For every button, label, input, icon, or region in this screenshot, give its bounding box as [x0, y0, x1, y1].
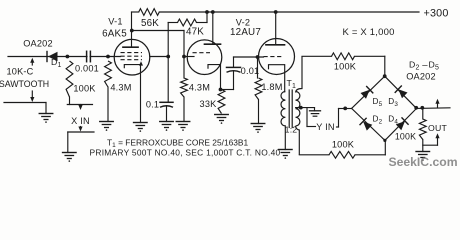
node junction dot bridge left [343, 107, 347, 111]
diode D5 bridge upper-left [361, 87, 373, 99]
node junction dot 100K tap [66, 55, 70, 59]
ground 0.1 cap [160, 122, 174, 131]
ground 33K [215, 115, 229, 124]
label 0.001 [75, 64, 99, 74]
resistor 100K input [66, 61, 73, 97]
tube V-2b cathode hook [269, 65, 285, 92]
label +300 [423, 8, 448, 20]
wire 100K to bridge top vertex [355, 56, 385, 76]
svg-text:100K: 100K [334, 62, 357, 72]
ground T1 center tap [310, 108, 321, 117]
wire bridge side upper-right [385, 76, 417, 108]
diode D4 bridge lower-right [396, 118, 408, 130]
capacitor C 0.001 plates [87, 50, 91, 63]
label caption line2 [90, 147, 281, 157]
wire 47K branch [168, 12, 207, 23]
wire Y-IN left segment [307, 108, 316, 127]
wire 0.01 top to V-2b grid [234, 57, 264, 67]
label OUT [428, 123, 447, 133]
svg-text:D1: D1 [51, 57, 62, 69]
svg-text:PRIMARY 500T NO.40, SEC 1,000T: PRIMARY 500T NO.40, SEC 1,000T C.T. NO.4… [90, 147, 281, 157]
node junction dot out 2 [420, 106, 424, 110]
resistor 1.8M grid leak [255, 57, 262, 124]
node junction dot V-2b plate top [274, 10, 278, 14]
label 100K input [73, 84, 96, 94]
label 4.3M V-2a [189, 83, 210, 93]
label 0.1 [146, 100, 159, 110]
svg-text:10K-C: 10K-C [6, 67, 33, 77]
wire X-IN bottom bar [68, 132, 94, 153]
wire 100K to X-IN top bar [67, 97, 92, 105]
label D1 designator [51, 57, 62, 69]
node junction dot out 1 [414, 106, 418, 110]
wire V-2a grid lead [184, 56, 194, 58]
svg-text:–: – [422, 60, 428, 71]
tube V-1 grid g3 dashes [121, 59, 143, 61]
tube V-1 cathode hook [124, 61, 143, 68]
node junction dot V-1 plate wire [130, 29, 134, 33]
wire cathode to 0.01 bottom [221, 72, 234, 90]
resistor 100K bridge top [332, 53, 355, 60]
diode D3 bridge upper-right [395, 86, 407, 98]
svg-text:T1: T1 [287, 78, 297, 90]
tube V-2a plate [205, 12, 221, 44]
svg-text:+300: +300 [423, 8, 448, 20]
tube V-1 grid g2 dashes [121, 55, 143, 57]
resistor 100K out [419, 108, 426, 152]
tube V-1 envelope [114, 39, 150, 75]
wire T1 secondary bottom [296, 126, 329, 155]
svg-text:0.001: 0.001 [75, 64, 99, 74]
resistor 33K [218, 90, 225, 114]
wire T1 primary bottom to ground [284, 126, 286, 150]
label 10K-C [6, 67, 33, 77]
svg-text:D4: D4 [388, 115, 398, 126]
svg-text:OUT: OUT [428, 123, 447, 133]
tube V-2b envelope [259, 39, 295, 75]
svg-text:SAWTOOTH: SAWTOOTH [0, 79, 49, 89]
wire T1 secondary top to 100K [296, 56, 332, 92]
inductor T1 primary winding [281, 92, 285, 126]
label Y IN [316, 122, 335, 132]
label 0.01 [241, 66, 260, 76]
transformer T1 core [289, 90, 292, 128]
diode D1 [47, 52, 58, 62]
svg-text:V-2: V-2 [236, 18, 250, 28]
svg-text:6AK5: 6AK5 [102, 29, 127, 40]
label 1:2 [285, 125, 298, 135]
label 33K [200, 99, 218, 109]
svg-text:X IN: X IN [71, 116, 90, 126]
node junction dot V-2a plate top [211, 10, 215, 14]
ground 4.3M V-2a [176, 122, 190, 131]
tube V-2a envelope [187, 40, 222, 75]
ground T1 primary [279, 150, 293, 159]
svg-text:4.3M: 4.3M [189, 83, 210, 93]
label D2-D5 [409, 60, 439, 72]
label 56K [141, 18, 159, 29]
wire bridge right to out [417, 107, 451, 110]
node X-IN bottom arrow [78, 127, 82, 132]
svg-text:D5: D5 [429, 60, 440, 72]
tube V-1 grid g1 dashes [121, 52, 143, 54]
wire main input horizontal [8, 56, 121, 58]
wire Y-IN right segment [337, 109, 352, 128]
resistor 100K bottom [329, 151, 355, 158]
svg-text:100K: 100K [73, 84, 96, 94]
ground V-1 cathode [134, 123, 148, 132]
label 100K bottom [332, 140, 355, 150]
svg-text:D2: D2 [373, 115, 383, 126]
node junction dot V-2a grid [182, 55, 186, 59]
svg-text:1.8M: 1.8M [261, 82, 282, 92]
tube V-1 plate [123, 12, 138, 47]
ground X-IN return [63, 153, 77, 162]
wire V-1 grid right [150, 56, 168, 58]
wire bridge side lower-left [352, 108, 385, 140]
svg-text:0.1: 0.1 [146, 100, 159, 110]
resistor 4.3M V-1 grid leak [105, 61, 112, 122]
tube V-2a grid dashes [193, 52, 211, 54]
node junction dot T1 center tap [299, 106, 303, 110]
tube V-2b grid dashes [264, 56, 283, 58]
label SAWTOOTH [0, 79, 49, 89]
label 100K top [334, 62, 357, 72]
wire V-1 cathode to ground [140, 65, 142, 123]
label D5 [373, 97, 383, 108]
node sawtooth source arrow down [30, 91, 34, 102]
svg-text:56K: 56K [141, 18, 159, 29]
label V-2 [236, 18, 250, 28]
svg-text:SeekIC.com: SeekIC.com [388, 155, 457, 169]
svg-text:K = X 1,000: K = X 1,000 [342, 27, 394, 38]
label 100K out [395, 132, 416, 142]
wire out return [423, 144, 438, 146]
svg-text:D5: D5 [373, 97, 383, 108]
label caption line1 [107, 138, 249, 150]
label 1.8M [261, 82, 282, 92]
capacitor 0.1 plates [160, 102, 173, 121]
wire bridge side upper-left [352, 76, 385, 108]
capacitor 0.01 plates [227, 67, 241, 72]
watermark SeekIC.com [388, 155, 457, 169]
svg-text:Y IN: Y IN [316, 122, 335, 132]
wire center tap [296, 107, 315, 109]
node out arrow top [435, 99, 439, 108]
label K = X 1,000 [342, 27, 394, 38]
svg-text:V-1: V-1 [108, 17, 122, 27]
inductor T1 secondary winding [296, 92, 300, 126]
label X IN [71, 116, 90, 126]
node sawtooth source arrow up [30, 58, 34, 65]
node junction dot 47K top [205, 10, 209, 14]
label 6AK5 [102, 29, 127, 40]
svg-text:100K: 100K [332, 140, 355, 150]
node junction dot bridge bottom [383, 139, 386, 142]
ground sawtooth [39, 114, 53, 123]
node out arrow bottom [435, 133, 439, 145]
resistor 56K [139, 9, 160, 16]
wire bridge side lower-right [385, 108, 417, 140]
wire sawtooth ground bus [4, 103, 46, 114]
node junction dot bridge top [383, 74, 387, 78]
svg-text:OA202: OA202 [23, 39, 53, 49]
tube V-2b plate [266, 12, 285, 45]
node junction dot 4.3M grid tap [106, 55, 110, 59]
tube V-2a cathode hook [208, 65, 221, 90]
label D2 [373, 115, 383, 126]
node junction dot grid2-0.1 [166, 55, 170, 59]
svg-text:47K: 47K [186, 27, 204, 38]
ground 4.3M V-1 [100, 122, 114, 131]
diode D2 bridge lower-left [360, 118, 372, 130]
label V-1 [108, 17, 122, 27]
resistor 4.3M V-2a grid leak [181, 57, 188, 122]
label 12AU7 [230, 27, 261, 38]
ground 100K out [416, 152, 430, 161]
label D4 [388, 115, 398, 126]
label OA202 diode D1 [23, 39, 53, 49]
svg-text:4.3M: 4.3M [110, 83, 131, 93]
svg-text:12AU7: 12AU7 [230, 27, 261, 38]
wire grid2 to 0.1 cap [167, 57, 169, 103]
node junction dot V-2a cathode [219, 88, 223, 92]
svg-text:OA202: OA202 [406, 72, 436, 82]
resistor 47K [178, 19, 197, 26]
svg-text:100K: 100K [395, 132, 416, 142]
label OA202 bridge [406, 72, 436, 82]
wire 100K bottom to bridge [355, 140, 385, 154]
label 47K [186, 27, 204, 38]
label D3 [388, 97, 398, 108]
svg-text:D2: D2 [409, 60, 420, 72]
wire 47K to V-1 grid2 [167, 23, 169, 57]
wire V-1 plate to V-2 grid coupling [132, 31, 184, 57]
ground 1.8M [251, 124, 265, 133]
node junction dot 1.8M tap [256, 55, 260, 59]
svg-text:0.01: 0.01 [241, 66, 260, 76]
label T1 [287, 78, 297, 90]
wire B+ rail [132, 11, 420, 13]
svg-text:33K: 33K [200, 99, 218, 109]
wire cathode to 33K [221, 89, 222, 91]
label 4.3M V-1 [110, 83, 131, 93]
node X-IN top arrow [78, 105, 82, 111]
svg-text:D3: D3 [388, 97, 398, 108]
